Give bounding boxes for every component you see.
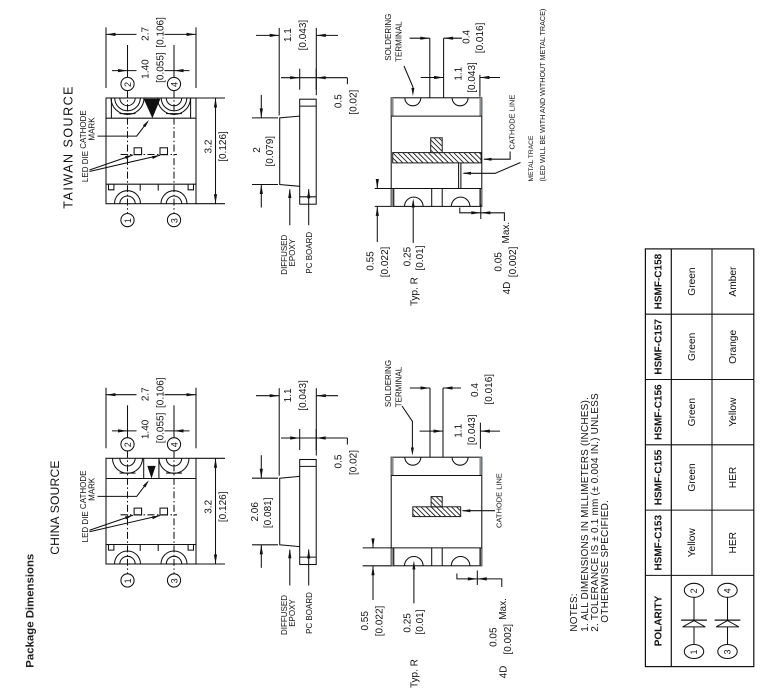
svg-text:TAIWAN SOURCE: TAIWAN SOURCE bbox=[62, 85, 76, 209]
svg-text:Green: Green bbox=[687, 398, 698, 426]
Taiwan front view dim 2.7 line bbox=[106, 33, 137, 35]
svg-text:2: 2 bbox=[123, 82, 133, 87]
svg-text:2: 2 bbox=[123, 442, 133, 447]
China front view pin 3 circle bbox=[167, 574, 180, 587]
China side view DIFFUSED EPOXY leader bbox=[289, 550, 291, 586]
svg-text:TERMINAL: TERMINAL bbox=[395, 21, 404, 62]
svg-text:Yellow: Yellow bbox=[728, 397, 739, 427]
China front view CATHODE MARK leader bbox=[98, 482, 148, 496]
China front view centerline pin4-pin3 bbox=[173, 451, 175, 574]
Taiwan bottom view top castellation notches bbox=[405, 98, 421, 106]
Taiwan bottom view bottom castellation notches bbox=[405, 197, 424, 206]
Taiwan side view PC board bottom cap line bbox=[300, 196, 317, 198]
svg-text:Max.: Max. bbox=[501, 222, 512, 244]
svg-text:[0.081]: [0.081] bbox=[263, 497, 274, 528]
svg-text:SOLDERING: SOLDERING bbox=[384, 14, 393, 61]
svg-text:Max.: Max. bbox=[498, 598, 509, 620]
polarity diode cathode bar 3-4 bbox=[715, 619, 741, 621]
Taiwan side view epoxy height dim arrows bbox=[260, 95, 262, 118]
China side view dim 1.1 extension lines bbox=[278, 388, 280, 476]
svg-text:[0.126]: [0.126] bbox=[218, 491, 229, 522]
Taiwan front view LED die left bbox=[134, 148, 142, 155]
svg-text:Green: Green bbox=[687, 463, 698, 491]
svg-text:3.2: 3.2 bbox=[204, 139, 215, 153]
svg-text:4D: 4D bbox=[499, 666, 510, 679]
China front view bottom band step left bbox=[109, 545, 114, 551]
Taiwan front view castellation notch pin1 bbox=[120, 196, 135, 204]
Taiwan front view top band inner edge lines bbox=[110, 98, 112, 118]
Taiwan side view DIFFUSED EPOXY leader bbox=[289, 190, 291, 226]
Taiwan front view dim 3.2 extension lines bbox=[196, 97, 225, 99]
China front view center channel lines bbox=[143, 458, 145, 478]
svg-text:1: 1 bbox=[123, 218, 133, 223]
Taiwan side view dim 1.1 extension lines bbox=[278, 28, 280, 116]
Taiwan bottom view top band line bbox=[391, 115, 482, 117]
svg-text:EPOXY: EPOXY bbox=[288, 238, 297, 266]
Taiwan front view castellation notch pin2 bbox=[120, 98, 135, 106]
Taiwan front view pin 2 circle bbox=[121, 77, 134, 90]
Taiwan front view top terminal band line bbox=[106, 117, 196, 119]
svg-text:[0.126]: [0.126] bbox=[218, 131, 229, 162]
Taiwan side view diffused epoxy profile bbox=[280, 116, 300, 186]
Taiwan bottom view metallization side bars bbox=[391, 98, 393, 116]
svg-text:1.1: 1.1 bbox=[454, 66, 465, 80]
svg-text:Orange: Orange bbox=[728, 330, 739, 364]
svg-text:[0.01]: [0.01] bbox=[415, 609, 426, 634]
svg-text:2: 2 bbox=[689, 588, 699, 593]
Taiwan front view bottom band step right bbox=[188, 184, 193, 190]
svg-text:[0.002]: [0.002] bbox=[508, 246, 519, 277]
svg-text:4: 4 bbox=[723, 588, 733, 593]
svg-text:Yellow: Yellow bbox=[687, 528, 698, 558]
China front view dim 1.40 line bbox=[112, 430, 137, 432]
China front view horizontal centerline through dies bbox=[121, 514, 178, 516]
svg-text:PC BOARD: PC BOARD bbox=[305, 232, 314, 274]
Taiwan bottom view bottom band pad lines bbox=[393, 189, 395, 207]
Taiwan bottom view dim 0.55 extension lines bbox=[375, 188, 392, 190]
Taiwan front view package outline bbox=[106, 98, 196, 204]
table row lines bbox=[645, 313, 753, 315]
svg-text:2.7: 2.7 bbox=[141, 27, 152, 41]
China front view bottom band center lines bbox=[139, 545, 141, 552]
Taiwan bottom view CATHODE LINE leader bbox=[484, 152, 510, 160]
svg-text:CATHODE LINE: CATHODE LINE bbox=[508, 95, 517, 150]
China front view pin 2 circle bbox=[121, 438, 134, 451]
svg-text:HER: HER bbox=[728, 532, 739, 554]
Taiwan side view dim 0.5 line bbox=[281, 77, 347, 79]
table frame bbox=[645, 249, 753, 667]
svg-text:3.2: 3.2 bbox=[204, 499, 215, 513]
China bottom view metallization side bars bbox=[391, 457, 393, 475]
Taiwan front view LED die right bbox=[160, 148, 168, 155]
China bottom view bottom band pad lines bbox=[393, 548, 395, 566]
Taiwan front view LED DIE leaders bbox=[90, 155, 134, 170]
Taiwan front view dim 1.40 line bbox=[112, 70, 137, 72]
China bottom view cathode line hatched tab bbox=[431, 497, 442, 507]
China front view top terminal band line bbox=[106, 478, 196, 480]
Taiwan front view castellation notch pin4 bbox=[166, 98, 181, 106]
svg-text:0.4: 0.4 bbox=[462, 30, 473, 44]
China bottom view cathode line hatched bar bbox=[413, 507, 461, 517]
China side view PC board bottom cap line bbox=[300, 556, 317, 558]
Taiwan front view dim 2.7 extension lines bbox=[105, 27, 107, 88]
svg-text:[0.043]: [0.043] bbox=[467, 62, 478, 93]
svg-text:EPOXY: EPOXY bbox=[288, 599, 297, 627]
China front view LED DIE leaders bbox=[90, 515, 134, 530]
Taiwan bottom view cathode line hatched tab bbox=[431, 138, 443, 153]
svg-text:4: 4 bbox=[169, 442, 179, 447]
svg-text:CATHODE LINE: CATHODE LINE bbox=[495, 473, 504, 528]
svg-text:LED DIE: LED DIE bbox=[81, 151, 90, 182]
Taiwan front view top pad outer arcs bbox=[111, 98, 144, 115]
Taiwan bottom view dim 1.1 extension line bbox=[479, 75, 481, 97]
polarity diode cathode bar 1-2 bbox=[681, 619, 707, 621]
svg-text:1.1: 1.1 bbox=[283, 388, 294, 402]
China bottom view bottom castellation notches bbox=[405, 557, 424, 566]
China front view LED die left bbox=[134, 508, 142, 515]
polarity diode anode pin circle 1 bbox=[684, 645, 703, 659]
China front view cathode mark triangle bbox=[147, 466, 155, 479]
China side view dim 0.5 ticks bbox=[299, 429, 301, 450]
China front view dim 3.2 line bbox=[215, 458, 217, 564]
China bottom view top band line bbox=[391, 475, 482, 477]
svg-text:[0.055]: [0.055] bbox=[156, 52, 167, 83]
polarity diode pins 1-2 bbox=[684, 583, 703, 597]
Taiwan front view centerline pin2-pin1 bbox=[127, 91, 129, 214]
svg-text:Typ. R: Typ. R bbox=[410, 659, 421, 688]
Taiwan bottom view dim 0.05 line bbox=[480, 205, 482, 220]
svg-text:TERMINAL: TERMINAL bbox=[395, 366, 404, 407]
Taiwan front view pin 3 circle bbox=[167, 214, 180, 227]
svg-text:Green: Green bbox=[687, 267, 698, 295]
Taiwan bottom view Typ R 0.25 leader bbox=[412, 202, 414, 243]
svg-text:[0.106]: [0.106] bbox=[156, 17, 167, 48]
svg-text:HSMF-C158: HSMF-C158 bbox=[654, 253, 665, 309]
Taiwan front view bottom terminal band line bbox=[106, 183, 196, 185]
Taiwan bottom view METAL TRACE leader bbox=[464, 163, 521, 174]
China front view bottom band step right bbox=[188, 545, 193, 551]
svg-text:0.55: 0.55 bbox=[360, 611, 371, 631]
Taiwan front view cathode mark triangle bbox=[144, 99, 161, 119]
svg-text:0.4: 0.4 bbox=[470, 383, 481, 397]
Taiwan front view centerline pin4-pin3 bbox=[173, 91, 175, 214]
Taiwan bottom view SOLDERING TERMINAL leader bbox=[404, 66, 413, 90]
svg-text:Typ. R: Typ. R bbox=[410, 277, 421, 306]
table column lines bbox=[670, 249, 672, 667]
China front view pin 4 circle bbox=[167, 438, 180, 451]
Taiwan front view horizontal centerline through dies bbox=[121, 154, 178, 156]
svg-text:LED DIE: LED DIE bbox=[81, 511, 90, 542]
China front view dim 2.7 extension lines bbox=[105, 388, 107, 449]
China front view dim 3.2 extension lines bbox=[196, 457, 225, 459]
svg-text:0.5: 0.5 bbox=[334, 454, 345, 468]
Taiwan front view dim 3.2 line bbox=[215, 98, 217, 204]
China bottom view dim 1.1 arrows bbox=[420, 430, 443, 432]
China front view top pad ring arcs bbox=[113, 458, 143, 473]
svg-text:HSMF-C155: HSMF-C155 bbox=[654, 449, 665, 505]
Taiwan front view top pad ring arcs bbox=[115, 98, 141, 111]
svg-text:Green: Green bbox=[687, 333, 698, 361]
svg-text:0.55: 0.55 bbox=[366, 251, 377, 271]
svg-text:(LED WILL BE WITH AND WITHOUT: (LED WILL BE WITH AND WITHOUT METAL TRAC… bbox=[538, 9, 547, 182]
Taiwan front view bottom pad ring arcs bbox=[115, 191, 141, 204]
China bottom view SOLDERING TERMINAL leader bbox=[402, 406, 412, 448]
svg-text:[0.043]: [0.043] bbox=[467, 414, 478, 445]
svg-text:POLARITY: POLARITY bbox=[654, 595, 665, 646]
svg-text:[0.043]: [0.043] bbox=[298, 20, 309, 51]
Taiwan bottom view dim 1.1 arrows bbox=[421, 77, 444, 79]
Taiwan side view PC board outline bbox=[300, 99, 317, 204]
polarity diode triangle 1-2 bbox=[683, 621, 706, 627]
svg-text:OTHERWISE SPECIFIED.: OTHERWISE SPECIFIED. bbox=[600, 500, 611, 623]
China bottom view dim 0.4 extension lines bbox=[429, 388, 431, 457]
svg-text:2: 2 bbox=[252, 147, 263, 153]
svg-text:[0.043]: [0.043] bbox=[298, 380, 309, 411]
China bottom view dim 0.55 extension lines bbox=[363, 547, 392, 549]
China side view diffused epoxy profile bbox=[280, 476, 300, 546]
China front view castellation notch pin3 bbox=[166, 556, 181, 564]
Taiwan side view PC BOARD leader bbox=[308, 189, 310, 225]
svg-text:3: 3 bbox=[723, 649, 733, 654]
svg-text:MARK: MARK bbox=[88, 477, 97, 501]
svg-text:[0.02]: [0.02] bbox=[349, 450, 360, 475]
svg-text:0.25: 0.25 bbox=[403, 246, 414, 266]
svg-text:1: 1 bbox=[123, 578, 133, 583]
svg-text:1.1: 1.1 bbox=[283, 28, 294, 42]
svg-text:2.06: 2.06 bbox=[250, 502, 261, 522]
China bottom view CATHODE LINE leader bbox=[463, 510, 496, 512]
China front view centerline pin2-pin1 bbox=[127, 451, 129, 574]
svg-text:1: 1 bbox=[689, 649, 699, 654]
China side view epoxy height dim arrows bbox=[260, 455, 262, 478]
China bottom view dim 1.1 extension line bbox=[479, 423, 481, 449]
Taiwan front view bottom band center lines bbox=[139, 184, 141, 191]
Taiwan front view bottom band step left bbox=[109, 184, 114, 190]
Taiwan bottom view dim 0.55 arrows bbox=[376, 180, 378, 189]
China bottom view dim 0.4 arrows bbox=[410, 387, 430, 389]
svg-text:1.40: 1.40 bbox=[141, 419, 152, 439]
svg-text:NOTES:: NOTES: bbox=[569, 593, 580, 631]
svg-text:HSMF-C156: HSMF-C156 bbox=[654, 384, 665, 440]
svg-text:0.05: 0.05 bbox=[489, 627, 500, 647]
svg-text:METAL TRACE: METAL TRACE bbox=[528, 135, 535, 181]
svg-text:2.7: 2.7 bbox=[141, 387, 152, 401]
China side view dim 0.5 line bbox=[281, 437, 347, 439]
svg-text:[0.01]: [0.01] bbox=[415, 245, 426, 270]
China front view castellation notch pin2 bbox=[120, 458, 135, 466]
Taiwan front view dim 1.40 extension lines bbox=[127, 45, 129, 77]
svg-text:[0.016]: [0.016] bbox=[484, 374, 495, 405]
svg-text:1.40: 1.40 bbox=[141, 59, 152, 79]
polarity diode pins 3-4 bbox=[718, 583, 737, 597]
svg-text:4: 4 bbox=[169, 82, 179, 87]
svg-text:[0.02]: [0.02] bbox=[349, 89, 360, 114]
China bottom view bottom band line bbox=[391, 547, 482, 549]
svg-text:[0.106]: [0.106] bbox=[156, 377, 167, 408]
Taiwan front view pin 4 circle bbox=[167, 77, 180, 90]
China side view epoxy height dim extension lines bbox=[252, 477, 278, 479]
svg-text:SOLDERING: SOLDERING bbox=[384, 360, 393, 407]
svg-text:Amber: Amber bbox=[728, 266, 739, 297]
svg-text:[0.022]: [0.022] bbox=[375, 605, 386, 636]
China bottom view dim 0.55 arrows bbox=[372, 540, 374, 548]
svg-text:[0.079]: [0.079] bbox=[265, 136, 276, 167]
svg-text:3: 3 bbox=[169, 578, 179, 583]
China side view PC board top cap line bbox=[300, 465, 317, 467]
China front view dim 1.40 extension lines bbox=[127, 405, 129, 437]
Taiwan side view dim 1.1 arrows bbox=[256, 34, 279, 36]
svg-text:[0.016]: [0.016] bbox=[475, 22, 486, 53]
Taiwan front view pin 1 circle bbox=[121, 214, 134, 227]
svg-text:0.25: 0.25 bbox=[403, 613, 414, 633]
China bottom view package outline bbox=[391, 457, 482, 566]
China front view castellation notch pin1 bbox=[120, 556, 135, 564]
China front view bottom pad ring arcs bbox=[115, 551, 141, 564]
China bottom view dim 0.05 line bbox=[476, 571, 478, 586]
svg-text:3: 3 bbox=[169, 218, 179, 223]
svg-text:HSMF-C153: HSMF-C153 bbox=[654, 515, 665, 571]
China front view LED die right bbox=[160, 508, 168, 515]
svg-text:0.5: 0.5 bbox=[334, 94, 345, 108]
Taiwan front view castellation notch pin3 bbox=[166, 196, 181, 204]
China front view castellation notch pin4 bbox=[166, 458, 181, 466]
svg-text:Package Dimensions: Package Dimensions bbox=[25, 554, 37, 668]
Taiwan side view dim 0.5 ticks bbox=[299, 69, 301, 90]
svg-text:PC BOARD: PC BOARD bbox=[305, 592, 314, 634]
China front view bottom terminal band line bbox=[106, 544, 196, 546]
China front view package outline bbox=[106, 458, 196, 564]
China front view pin 1 circle bbox=[121, 574, 134, 587]
Taiwan front view CATHODE MARK leader bbox=[98, 122, 148, 136]
polarity diode triangle 3-4 bbox=[716, 621, 739, 627]
Taiwan bottom view package outline bbox=[391, 98, 482, 207]
svg-text:0.05: 0.05 bbox=[494, 252, 505, 272]
svg-text:[0.022]: [0.022] bbox=[380, 246, 391, 277]
Taiwan bottom view dim 0.4 arrows bbox=[410, 37, 430, 39]
svg-text:1.1: 1.1 bbox=[454, 423, 465, 437]
Taiwan bottom view cathode line hatched strip bbox=[393, 153, 481, 163]
China side view PC BOARD leader bbox=[308, 550, 310, 586]
Taiwan side view PC board top cap line bbox=[300, 105, 317, 107]
China side view PC board outline bbox=[300, 460, 317, 565]
Taiwan side view epoxy height dim extension lines bbox=[252, 117, 278, 119]
Taiwan bottom view bottom band line bbox=[391, 188, 482, 190]
svg-text:[0.055]: [0.055] bbox=[156, 412, 167, 443]
svg-text:4D: 4D bbox=[502, 282, 513, 295]
Taiwan bottom view dim 0.4 extension lines bbox=[429, 38, 431, 97]
polarity diode anode pin circle 3 bbox=[718, 645, 737, 659]
svg-text:CHINA SOURCE: CHINA SOURCE bbox=[48, 460, 62, 554]
svg-text:HER: HER bbox=[728, 467, 739, 489]
China front view dim 2.7 line bbox=[106, 394, 137, 396]
svg-text:HSMF-C157: HSMF-C157 bbox=[654, 319, 665, 375]
Taiwan bottom view metal trace lines bbox=[458, 163, 460, 189]
svg-text:[0.002]: [0.002] bbox=[503, 624, 514, 655]
China bottom view Typ R 0.25 leader bbox=[413, 564, 415, 604]
China side view dim 1.1 arrows bbox=[256, 395, 279, 397]
svg-text:MARK: MARK bbox=[88, 117, 97, 141]
China bottom view top castellation notches bbox=[405, 457, 421, 465]
